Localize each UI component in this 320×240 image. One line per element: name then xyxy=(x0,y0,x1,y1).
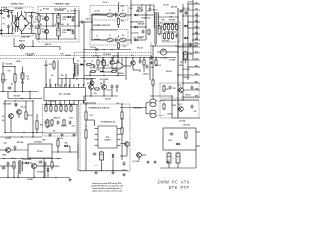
wire xyxy=(14,67,16,92)
svg-text:D11 FR155: D11 FR155 xyxy=(103,54,111,56)
wire xyxy=(121,118,123,160)
fan motor M1 xyxy=(19,44,24,49)
wire xyxy=(177,164,179,168)
wire xyxy=(165,22,177,24)
wire primary link vertical xyxy=(91,15,93,40)
junction xyxy=(182,82,183,83)
ground xyxy=(72,134,75,137)
svg-text:R27: R27 xyxy=(90,67,93,69)
capacitor C33 xyxy=(142,30,145,34)
svg-text:C41 47u: C41 47u xyxy=(185,93,191,96)
resistor R53 xyxy=(60,105,62,112)
wire xyxy=(71,29,73,31)
wire xyxy=(64,29,67,31)
dashed boundary step xyxy=(73,53,75,59)
wire xyxy=(72,17,74,20)
junction xyxy=(182,15,183,16)
wire output tap xyxy=(183,82,200,84)
wire xyxy=(149,58,151,81)
capacitor C80 xyxy=(169,86,172,90)
svg-text:C41: C41 xyxy=(194,110,197,113)
junction xyxy=(21,33,22,34)
wire xyxy=(92,64,94,66)
capacitor C93 xyxy=(44,162,47,166)
junction xyxy=(38,25,39,26)
wire xyxy=(51,158,53,162)
svg-text:L4 5uH: L4 5uH xyxy=(163,3,169,6)
svg-text:L1: L1 xyxy=(147,11,149,13)
svg-text:FEEDBACK: FEEDBACK xyxy=(133,107,143,110)
svg-text:C93 470u: C93 470u xyxy=(37,171,44,174)
svg-text:D1 FR107: D1 FR107 xyxy=(71,11,78,13)
resistor R30 xyxy=(117,17,119,25)
diode D52 xyxy=(25,162,29,165)
wire T2 bottom xyxy=(73,74,75,79)
svg-text:D18: D18 xyxy=(136,11,139,13)
wire xyxy=(146,102,150,104)
capacitor C23 xyxy=(146,65,149,69)
junction xyxy=(14,158,15,159)
wire xyxy=(64,16,67,18)
wire return rail xyxy=(84,49,131,51)
junction xyxy=(31,22,32,23)
svg-text:200W PC ATX: 200W PC ATX xyxy=(157,181,189,186)
junction xyxy=(141,4,142,5)
wire xyxy=(126,152,128,156)
transformer T1 winding (primary, lower) xyxy=(107,38,113,42)
junction xyxy=(58,13,59,14)
svg-text:C27 10n: C27 10n xyxy=(90,47,96,49)
capacitor C16b xyxy=(21,81,24,85)
svg-text:R2: R2 xyxy=(40,24,42,26)
wire xyxy=(139,58,141,62)
wire xyxy=(141,154,146,156)
resistor R19 xyxy=(53,61,55,69)
ground xyxy=(68,178,71,181)
resistor R40 xyxy=(163,23,165,30)
capacitor C38 1000u xyxy=(158,25,161,36)
wire xyxy=(58,23,60,26)
transformer T3 primary winding xyxy=(18,161,19,171)
capacitor CY1 xyxy=(7,14,10,18)
junction xyxy=(112,57,113,58)
wire xyxy=(59,47,61,51)
junction xyxy=(33,177,34,178)
junction xyxy=(14,149,15,150)
wire inv input xyxy=(113,63,117,65)
junction xyxy=(57,158,58,159)
wire xyxy=(29,162,32,164)
regulator block outline xyxy=(163,128,196,150)
wire xyxy=(52,14,54,27)
junction xyxy=(8,10,9,11)
wire secondary out upper xyxy=(126,14,131,16)
bridge rectifier B1 xyxy=(14,15,29,32)
wire output bus main +5V xyxy=(177,8,179,118)
junction xyxy=(182,9,183,10)
connector pin N return xyxy=(0,29,3,31)
junction xyxy=(103,67,104,68)
capacitor C16 xyxy=(15,103,18,107)
junction xyxy=(36,132,37,133)
svg-text:C25: C25 xyxy=(94,93,97,95)
rectifier D20 xyxy=(134,26,138,29)
junction xyxy=(103,75,104,76)
wire xyxy=(103,80,105,85)
diode D30 xyxy=(184,25,188,28)
svg-text:C63: C63 xyxy=(72,126,75,128)
wire xyxy=(125,58,127,81)
wire to fan xyxy=(14,46,19,48)
resistor R82 xyxy=(163,103,165,110)
junction xyxy=(73,78,74,79)
resistor R61 xyxy=(51,119,53,126)
wire xyxy=(102,67,104,72)
resistor R26b xyxy=(36,120,38,130)
capacitor C52 xyxy=(189,43,192,47)
diode D51 xyxy=(50,165,54,168)
junction xyxy=(117,57,118,58)
transistor Q6 xyxy=(110,60,114,64)
wire xyxy=(103,71,113,73)
wire xyxy=(111,89,113,96)
wire xyxy=(51,167,53,170)
wire xyxy=(68,145,70,147)
resistor R43 xyxy=(175,23,177,30)
capacitor C62 47u xyxy=(46,119,49,129)
svg-text:C15: C15 xyxy=(26,76,29,78)
junction xyxy=(58,25,59,26)
wire xyxy=(100,14,106,16)
wire xyxy=(121,131,123,133)
svg-text:C14: C14 xyxy=(51,74,54,77)
capacitor C7 xyxy=(72,18,75,22)
resistor R39 xyxy=(143,59,145,66)
wire xyxy=(7,92,9,99)
svg-text:POWERGOOD CIRCUIT: POWERGOOD CIRCUIT xyxy=(88,108,110,110)
wire top link xyxy=(3,66,15,68)
resistor R2 xyxy=(38,27,40,35)
capacitor C81 xyxy=(191,105,194,109)
svg-text:R50: R50 xyxy=(162,19,165,21)
connector pin N xyxy=(0,12,3,14)
diode D40 xyxy=(176,143,180,146)
svg-text:7905: 7905 xyxy=(172,105,176,107)
resistor R31 xyxy=(90,70,96,72)
junction xyxy=(145,26,146,27)
capacitor C72 xyxy=(99,151,103,162)
wire xyxy=(117,72,119,76)
junction xyxy=(130,4,131,5)
junction xyxy=(57,84,58,85)
junction xyxy=(111,57,112,58)
wire xyxy=(36,114,38,121)
svg-text:PC817: PC817 xyxy=(37,151,44,153)
wire step xyxy=(35,34,37,40)
wire xyxy=(150,95,172,97)
wire xyxy=(36,129,38,132)
inductor L1 winding a2 xyxy=(11,25,14,32)
wire xyxy=(46,21,48,26)
capacitor C36 xyxy=(149,8,152,12)
wire xyxy=(11,22,13,25)
ground xyxy=(166,161,169,164)
rectifier D18 xyxy=(134,14,138,17)
junction xyxy=(46,38,47,39)
svg-text:YEL: YEL xyxy=(195,2,198,4)
wire output tap xyxy=(183,9,200,11)
wire ground rail bottom xyxy=(0,177,70,179)
wire xyxy=(60,105,62,107)
wire output tap xyxy=(178,74,200,76)
svg-text:C92: C92 xyxy=(11,158,14,160)
junction xyxy=(177,16,178,17)
wire xyxy=(138,157,140,160)
svg-text:D9: D9 xyxy=(84,61,86,63)
junction xyxy=(85,125,86,126)
svg-text:R16: R16 xyxy=(61,54,64,56)
svg-text:R20: R20 xyxy=(61,75,64,77)
wire xyxy=(13,168,15,178)
wire xyxy=(14,149,16,151)
wire -5V feed xyxy=(152,46,154,99)
wire aux rail xyxy=(125,57,176,59)
svg-text:R12 330k: R12 330k xyxy=(6,64,13,66)
resistor R55 xyxy=(70,105,72,112)
svg-text:Q11: Q11 xyxy=(179,85,182,87)
junction xyxy=(23,132,24,133)
junction xyxy=(130,26,131,27)
zener diode ZD1 xyxy=(112,154,115,158)
resistor R81 xyxy=(163,85,165,92)
wire xyxy=(97,65,99,68)
wire vertical bus xyxy=(74,8,76,39)
dashed boundary vertical xyxy=(150,42,152,56)
svg-text:D2: D2 xyxy=(67,24,69,26)
wire xyxy=(0,149,6,151)
junction xyxy=(46,84,47,85)
wire xyxy=(71,16,75,18)
wire xyxy=(79,21,80,23)
capacitor C71 xyxy=(93,153,97,156)
wire bridge + xyxy=(29,22,32,24)
wire AC line top xyxy=(8,10,14,12)
dashed box: primary switching xyxy=(38,7,79,43)
wire xyxy=(102,58,104,61)
svg-text:R13: R13 xyxy=(8,71,11,73)
svg-text:T2: T2 xyxy=(77,61,79,63)
wire xyxy=(53,60,55,62)
wire xyxy=(131,26,134,28)
transistor Q6b xyxy=(90,81,94,85)
svg-text:R16 47k: R16 47k xyxy=(65,54,71,57)
svg-text:C25 1n: C25 1n xyxy=(107,89,112,91)
optocoupler IC4 box xyxy=(28,144,52,158)
capacitor C81b xyxy=(191,86,194,90)
dashed box: output stage +5V row xyxy=(90,6,128,21)
wire xyxy=(85,121,87,130)
junction xyxy=(149,57,150,58)
resistor R45b xyxy=(167,32,169,39)
wire loop right xyxy=(32,101,34,133)
svg-text:+12V: +12V xyxy=(120,6,125,8)
svg-text:D21 F12C20: D21 F12C20 xyxy=(133,38,142,40)
svg-text:D50: D50 xyxy=(65,142,68,144)
capacitor C20 xyxy=(111,85,114,89)
resistor R27 xyxy=(86,63,92,65)
inductor L1 winding b2 xyxy=(14,25,17,32)
capacitor C84 1000u xyxy=(176,152,180,165)
svg-text:-12V 0.5A: -12V 0.5A xyxy=(182,124,190,127)
junction xyxy=(43,177,44,178)
junction xyxy=(177,51,178,52)
svg-text:C39: C39 xyxy=(166,89,169,91)
capacitor C19 xyxy=(93,65,96,69)
svg-text:D3: D3 xyxy=(12,29,14,31)
wire xyxy=(47,172,49,177)
wire xyxy=(100,39,106,41)
junction xyxy=(70,104,71,105)
junction xyxy=(22,91,23,92)
svg-text:D1: D1 xyxy=(12,16,14,18)
junction xyxy=(4,100,5,101)
wire xyxy=(21,162,24,164)
resistor R63 xyxy=(63,119,65,126)
capacitor C40 xyxy=(175,34,178,38)
junction xyxy=(102,57,103,58)
op-amp U3 LM339 comparator xyxy=(95,126,121,148)
junction xyxy=(7,177,8,178)
wire xyxy=(167,51,178,53)
junction xyxy=(145,107,146,108)
junction xyxy=(177,74,178,75)
capacitor C94 xyxy=(2,167,6,170)
wire output bus 1 xyxy=(182,4,184,100)
junction xyxy=(130,14,131,15)
wire driver lower rail xyxy=(58,78,96,80)
resistor R46 xyxy=(137,9,143,11)
junction xyxy=(182,45,183,46)
transformer T1 winding (secondary, upper) xyxy=(120,13,126,17)
wire xyxy=(139,70,141,72)
wire xyxy=(86,119,95,121)
wire xyxy=(38,14,40,16)
resistor R46b xyxy=(171,32,173,39)
wire xyxy=(155,58,157,61)
svg-text:Q14: Q14 xyxy=(3,142,6,145)
diode D2 xyxy=(67,29,71,32)
wire xyxy=(13,22,14,24)
junction xyxy=(32,46,33,47)
junction xyxy=(182,99,183,100)
wire xyxy=(157,51,160,53)
svg-text:C9 1n2: C9 1n2 xyxy=(103,2,108,4)
wire xyxy=(77,144,79,159)
wire xyxy=(17,12,19,18)
junction xyxy=(83,78,84,79)
svg-text:R33 SET: R33 SET xyxy=(169,20,175,22)
svg-text:R46 10: R46 10 xyxy=(153,9,158,12)
wire xyxy=(143,66,145,72)
junction xyxy=(52,25,53,26)
wire xyxy=(45,105,47,107)
wire xyxy=(116,89,118,92)
wire output tap xyxy=(188,27,200,29)
svg-text:C37 2200u: C37 2200u xyxy=(182,69,190,71)
junction xyxy=(46,25,47,26)
transformer T1 core (upper) xyxy=(116,13,117,18)
transistor Q3 xyxy=(9,114,14,119)
wire xyxy=(111,58,113,61)
resistor R40b xyxy=(155,59,157,66)
svg-text:R23: R23 xyxy=(15,104,18,106)
resistor R48 xyxy=(152,79,154,86)
svg-text:T2: T2 xyxy=(95,53,97,55)
wire xyxy=(53,68,55,70)
wire xyxy=(149,5,151,9)
wire output bus 3 xyxy=(192,0,194,60)
transistor Q7 xyxy=(89,85,94,90)
svg-text:B1: B1 xyxy=(24,12,26,14)
capacitor C50 xyxy=(180,9,183,13)
svg-text:R93 47k: R93 47k xyxy=(57,137,63,140)
resistor R51 xyxy=(50,105,52,112)
transformer T3 secondary winding xyxy=(21,161,22,171)
junction xyxy=(130,39,131,40)
wire stub xyxy=(155,44,157,46)
svg-text:GND PWR: GND PWR xyxy=(21,37,30,39)
svg-text:T2: T2 xyxy=(91,61,93,63)
svg-text:C1a: C1a xyxy=(3,18,6,20)
resistor R75 xyxy=(121,127,123,135)
junction xyxy=(182,59,183,60)
wire power good bottom rail xyxy=(78,170,128,172)
junction xyxy=(152,45,153,46)
wire xyxy=(65,105,67,107)
svg-text:S1: S1 xyxy=(122,10,124,12)
transistor Q10 xyxy=(125,142,130,147)
svg-text:C37b: C37b xyxy=(189,54,193,56)
svg-text:FAN 12V: FAN 12V xyxy=(19,40,25,43)
wire xyxy=(103,66,105,69)
diode D1 xyxy=(67,16,71,19)
wire bridge bottom xyxy=(21,32,23,34)
svg-text:C4 1u: C4 1u xyxy=(86,18,91,21)
dashed box: mains input filter xyxy=(2,7,34,36)
wire xyxy=(196,131,200,133)
capacitor C62 xyxy=(57,121,60,125)
wire xyxy=(91,14,93,22)
dashed box: voltage sense xyxy=(162,22,180,42)
svg-text:7912: 7912 xyxy=(172,88,176,90)
junction xyxy=(111,49,112,50)
resistor R54 xyxy=(65,105,67,112)
junction xyxy=(171,95,172,96)
junction xyxy=(14,100,15,101)
wire xyxy=(84,21,92,23)
wire xyxy=(43,159,45,178)
junction xyxy=(17,177,18,178)
transistor Q15 xyxy=(31,163,36,168)
capacitor C15 10u xyxy=(21,72,24,81)
wire xyxy=(92,39,107,41)
wire xyxy=(172,117,200,119)
wire xyxy=(22,67,24,74)
wire output tap xyxy=(183,59,200,61)
svg-text:FAN 12V: FAN 12V xyxy=(45,43,52,46)
wire xyxy=(69,146,71,152)
junction xyxy=(182,43,183,44)
